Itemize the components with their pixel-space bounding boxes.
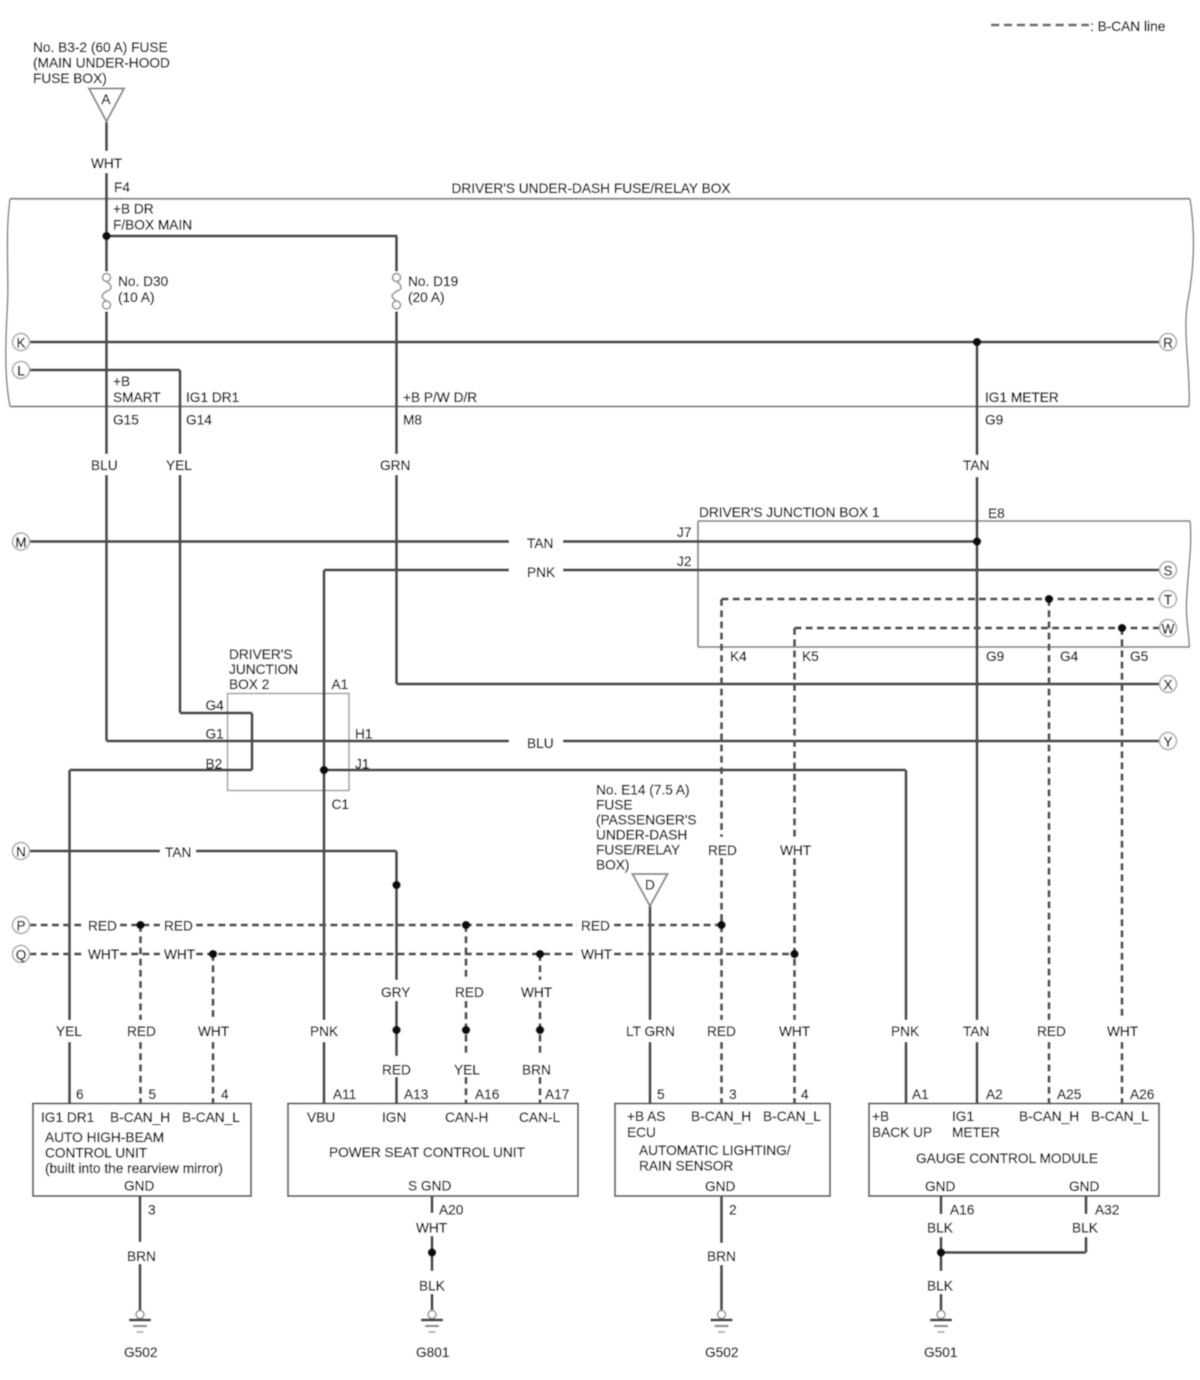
svg-text:+B P/W D/R: +B P/W D/R — [403, 390, 477, 405]
svg-text:VBU: VBU — [307, 1110, 335, 1125]
svg-text:METER: METER — [952, 1125, 1000, 1140]
svg-text:F4: F4 — [114, 180, 130, 195]
svg-text:K: K — [16, 335, 25, 350]
svg-text:RED: RED — [1037, 1024, 1066, 1039]
svg-text:C1: C1 — [332, 797, 350, 812]
svg-text:G501: G501 — [924, 1345, 957, 1360]
svg-text:A26: A26 — [1130, 1087, 1155, 1102]
svg-text:GND: GND — [1069, 1179, 1100, 1194]
svg-text:GRN: GRN — [380, 458, 410, 473]
svg-text:+B AS: +B AS — [627, 1109, 665, 1124]
svg-text:(10 A): (10 A) — [118, 290, 155, 305]
svg-text:RED: RED — [708, 843, 737, 858]
svg-text:BOX 2: BOX 2 — [229, 677, 269, 692]
svg-text:A17: A17 — [545, 1087, 569, 1102]
svg-text:G9: G9 — [986, 649, 1004, 664]
svg-text:BOX): BOX) — [596, 858, 629, 873]
svg-text:B-CAN_L: B-CAN_L — [1091, 1109, 1149, 1124]
svg-text:CONTROL UNIT: CONTROL UNIT — [45, 1146, 148, 1161]
svg-text:J2: J2 — [677, 554, 691, 569]
svg-text:T: T — [1164, 592, 1172, 607]
svg-text:No. D30: No. D30 — [118, 274, 169, 289]
svg-text:B-CAN_L: B-CAN_L — [182, 1110, 240, 1125]
svg-text:6: 6 — [76, 1087, 84, 1102]
svg-text:M: M — [15, 535, 26, 550]
svg-text:DRIVER'S UNDER-DASH FUSE/RELAY: DRIVER'S UNDER-DASH FUSE/RELAY BOX — [452, 181, 731, 196]
svg-text:YEL: YEL — [454, 1063, 480, 1078]
svg-text:BLK: BLK — [1072, 1221, 1098, 1236]
svg-text:RED: RED — [127, 1024, 156, 1039]
svg-text:BLK: BLK — [927, 1279, 953, 1294]
svg-text:RAIN SENSOR: RAIN SENSOR — [639, 1159, 733, 1174]
svg-text:SMART: SMART — [113, 390, 161, 405]
svg-text:A32: A32 — [1095, 1203, 1119, 1218]
svg-text:WHT: WHT — [198, 1024, 230, 1039]
svg-text:5: 5 — [657, 1087, 665, 1102]
svg-text:WHT: WHT — [521, 985, 553, 1000]
svg-text:TAN: TAN — [963, 1024, 989, 1039]
svg-text:TAN: TAN — [527, 536, 553, 551]
svg-text:A16: A16 — [950, 1203, 975, 1218]
svg-text:IG1 METER: IG1 METER — [985, 390, 1059, 405]
svg-text:BACK UP: BACK UP — [872, 1125, 932, 1140]
svg-text:G15: G15 — [113, 413, 139, 428]
svg-text:(MAIN UNDER-HOOD: (MAIN UNDER-HOOD — [33, 56, 170, 71]
svg-text:G4: G4 — [1060, 649, 1079, 664]
svg-text:WHT: WHT — [416, 1221, 448, 1236]
svg-text:2: 2 — [729, 1203, 737, 1218]
svg-text:No. E14 (7.5 A): No. E14 (7.5 A) — [596, 783, 690, 798]
svg-text:Q: Q — [16, 947, 27, 962]
svg-text:H1: H1 — [355, 727, 373, 742]
svg-text:M8: M8 — [403, 413, 422, 428]
svg-text:PNK: PNK — [891, 1024, 919, 1039]
svg-text:A25: A25 — [1057, 1087, 1082, 1102]
svg-text:BLU: BLU — [91, 458, 118, 473]
svg-text:Y: Y — [1163, 734, 1172, 749]
svg-text:S: S — [1163, 563, 1172, 578]
svg-text:UNDER-DASH: UNDER-DASH — [596, 828, 687, 843]
svg-text:S GND: S GND — [408, 1179, 451, 1194]
svg-text:5: 5 — [149, 1087, 157, 1102]
svg-text:YEL: YEL — [166, 458, 192, 473]
svg-text:(PASSENGER'S: (PASSENGER'S — [596, 813, 696, 828]
svg-text:ECU: ECU — [627, 1125, 656, 1140]
svg-text:DRIVER'S: DRIVER'S — [229, 647, 292, 662]
svg-text:F/BOX MAIN: F/BOX MAIN — [113, 218, 192, 233]
svg-text:N: N — [16, 844, 26, 859]
svg-text:3: 3 — [148, 1203, 156, 1218]
svg-text:G5: G5 — [1130, 649, 1149, 664]
svg-text:BLU: BLU — [527, 736, 554, 751]
svg-text:No. B3-2 (60 A) FUSE: No. B3-2 (60 A) FUSE — [33, 40, 168, 55]
svg-text:CAN-H: CAN-H — [445, 1110, 488, 1125]
svg-text:+B: +B — [872, 1109, 889, 1124]
svg-text:RED: RED — [707, 1024, 736, 1039]
svg-text:PNK: PNK — [527, 565, 555, 580]
svg-text:WHT: WHT — [164, 947, 196, 962]
svg-text:PNK: PNK — [310, 1024, 338, 1039]
svg-text:A: A — [101, 92, 111, 107]
svg-text:G4: G4 — [206, 698, 225, 713]
svg-text:WHT: WHT — [780, 843, 812, 858]
svg-text:BLK: BLK — [419, 1279, 445, 1294]
svg-text:BRN: BRN — [522, 1063, 551, 1078]
svg-text:D: D — [645, 878, 655, 893]
svg-text:IG1 DR1: IG1 DR1 — [41, 1110, 94, 1125]
svg-text:BLK: BLK — [927, 1221, 953, 1236]
svg-text:+B: +B — [113, 374, 130, 389]
svg-text:AUTOMATIC LIGHTING/: AUTOMATIC LIGHTING/ — [639, 1143, 791, 1158]
svg-text:GAUGE CONTROL MODULE: GAUGE CONTROL MODULE — [916, 1151, 1098, 1166]
svg-text:DRIVER'S JUNCTION BOX 1: DRIVER'S JUNCTION BOX 1 — [699, 505, 880, 520]
svg-text:A1: A1 — [912, 1087, 929, 1102]
svg-text:FUSE: FUSE — [596, 798, 633, 813]
svg-text:FUSE/RELAY: FUSE/RELAY — [596, 843, 680, 858]
svg-text:AUTO HIGH-BEAM: AUTO HIGH-BEAM — [45, 1130, 164, 1145]
svg-text:RED: RED — [581, 919, 610, 934]
svg-text:: B-CAN line: : B-CAN line — [1090, 19, 1165, 34]
svg-text:B-CAN_H: B-CAN_H — [691, 1109, 751, 1124]
svg-text:POWER SEAT CONTROL UNIT: POWER SEAT CONTROL UNIT — [329, 1145, 526, 1160]
svg-text:E8: E8 — [988, 506, 1005, 521]
svg-text:(20 A): (20 A) — [408, 290, 445, 305]
svg-text:+B DR: +B DR — [113, 202, 154, 217]
svg-text:IG1 DR1: IG1 DR1 — [186, 390, 239, 405]
svg-text:B-CAN_H: B-CAN_H — [1019, 1109, 1079, 1124]
svg-text:CAN-L: CAN-L — [519, 1110, 560, 1125]
svg-text:3: 3 — [729, 1087, 737, 1102]
svg-text:A13: A13 — [404, 1087, 429, 1102]
svg-text:W: W — [1162, 621, 1175, 636]
svg-text:FUSE BOX): FUSE BOX) — [33, 71, 107, 86]
svg-text:BRN: BRN — [127, 1249, 156, 1264]
svg-text:B2: B2 — [206, 757, 223, 772]
svg-text:RED: RED — [455, 985, 484, 1000]
svg-text:GRY: GRY — [381, 985, 410, 1000]
svg-text:BRN: BRN — [707, 1249, 736, 1264]
svg-text:JUNCTION: JUNCTION — [229, 662, 298, 677]
svg-text:G14: G14 — [186, 413, 212, 428]
svg-text:K5: K5 — [802, 649, 819, 664]
svg-text:(built into the rearview mirro: (built into the rearview mirror) — [45, 1161, 223, 1176]
svg-text:4: 4 — [801, 1087, 809, 1102]
svg-text:WHT: WHT — [1107, 1024, 1139, 1039]
svg-text:TAN: TAN — [963, 458, 989, 473]
svg-text:A11: A11 — [333, 1087, 356, 1102]
svg-text:J7: J7 — [677, 525, 691, 540]
svg-text:RED: RED — [88, 919, 117, 934]
svg-text:G502: G502 — [705, 1345, 738, 1360]
svg-text:G502: G502 — [124, 1345, 157, 1360]
svg-text:WHT: WHT — [88, 947, 120, 962]
svg-text:IGN: IGN — [382, 1110, 406, 1125]
svg-text:R: R — [1163, 335, 1173, 350]
svg-text:A16: A16 — [475, 1087, 500, 1102]
svg-text:GND: GND — [124, 1179, 155, 1194]
svg-text:P: P — [16, 918, 25, 933]
svg-text:A2: A2 — [986, 1087, 1003, 1102]
svg-text:RED: RED — [164, 919, 193, 934]
svg-text:4: 4 — [221, 1087, 229, 1102]
svg-text:No. D19: No. D19 — [408, 274, 458, 289]
svg-text:LT GRN: LT GRN — [626, 1024, 675, 1039]
svg-text:A20: A20 — [439, 1203, 464, 1218]
svg-text:G801: G801 — [416, 1345, 449, 1360]
svg-text:L: L — [17, 363, 25, 378]
svg-text:YEL: YEL — [56, 1024, 82, 1039]
svg-text:GND: GND — [705, 1179, 736, 1194]
svg-text:WHT: WHT — [779, 1024, 811, 1039]
svg-text:WHT: WHT — [581, 947, 613, 962]
svg-text:G9: G9 — [985, 413, 1003, 428]
svg-text:X: X — [1163, 677, 1172, 692]
svg-text:RED: RED — [382, 1063, 411, 1078]
svg-text:WHT: WHT — [91, 156, 123, 171]
svg-text:B-CAN_L: B-CAN_L — [763, 1109, 821, 1124]
svg-text:GND: GND — [925, 1179, 956, 1194]
svg-text:IG1: IG1 — [952, 1109, 974, 1124]
svg-text:G1: G1 — [206, 727, 224, 742]
svg-text:A1: A1 — [332, 677, 349, 692]
svg-text:J1: J1 — [355, 757, 369, 772]
svg-text:B-CAN_H: B-CAN_H — [110, 1110, 170, 1125]
svg-text:K4: K4 — [730, 649, 747, 664]
svg-text:TAN: TAN — [165, 845, 191, 860]
